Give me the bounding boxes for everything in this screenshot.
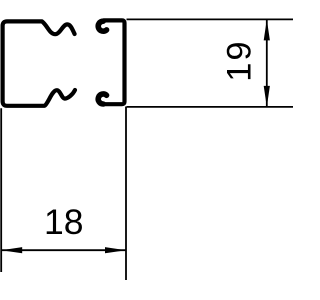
- cover bottom curl hook: [98, 94, 106, 104]
- cover top curl hook: [98, 21, 106, 31]
- horizontal dimension line for 18: [1, 249, 126, 251]
- dimension arrow down (19 bottom): [264, 86, 270, 107]
- dimension arrow up (19 top): [264, 19, 270, 40]
- extension line left (below channel left wall): [0, 108, 2, 272]
- trunking base profile (U-channel body): [3, 21, 75, 105]
- svg-text:18: 18: [44, 202, 84, 242]
- svg-text:19: 19: [221, 39, 259, 81]
- extension line top (from cover top edge to right): [127, 18, 294, 20]
- cover profile (lid with curled hooks): [103, 20, 124, 104]
- dimension arrow left (18): [1, 247, 22, 253]
- extension line bottom (from cover bottom edge to right): [127, 106, 294, 108]
- vertical dimension line for 19: [266, 19, 268, 107]
- extension line right (below cover): [125, 107, 127, 281]
- dimension arrow right (18): [105, 247, 126, 253]
